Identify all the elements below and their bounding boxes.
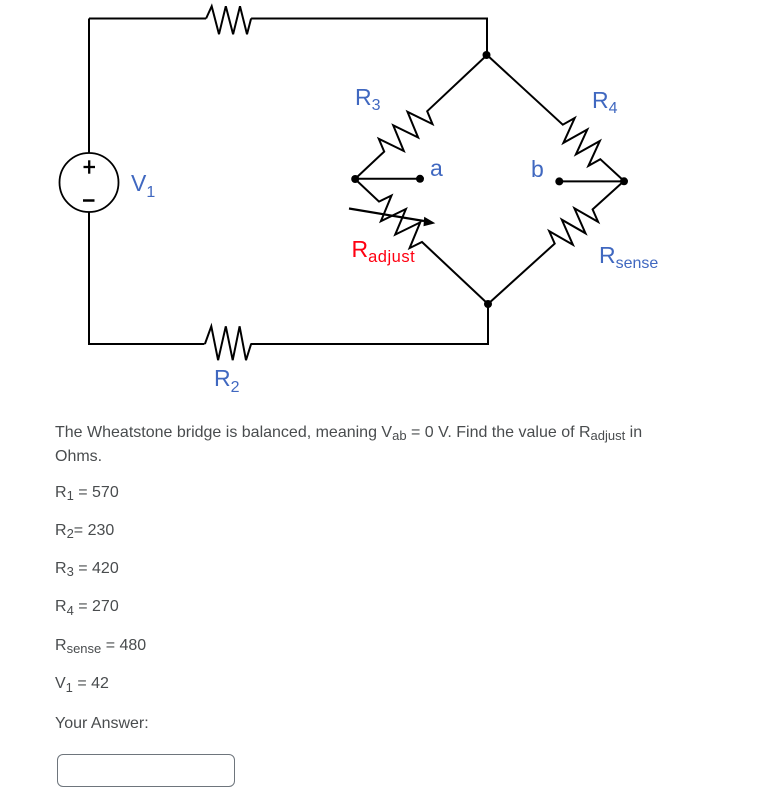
junction dot node b <box>555 177 563 185</box>
label R4 <box>592 89 618 112</box>
value V1 <box>55 672 109 696</box>
label R3 <box>355 86 381 109</box>
label node b <box>531 158 544 181</box>
resistor R4 (bridge branch: top node to right node) <box>487 55 624 181</box>
label V1 <box>131 172 155 195</box>
label Radjust <box>352 238 416 261</box>
voltage source V1 <box>60 153 119 212</box>
resistor Rsense (bridge branch: bottom node to right node) <box>488 181 624 304</box>
resistor R1 <box>206 6 251 34</box>
label node a <box>430 157 443 180</box>
resistor R2 <box>205 326 251 360</box>
value R2 <box>55 519 114 543</box>
junction dot left node <box>351 175 359 183</box>
question text <box>55 421 642 469</box>
wire top-left horizontal from source top corner <box>89 18 206 20</box>
junction dot top node <box>483 51 491 59</box>
wire left vertical upper (source to top wire) <box>88 19 90 154</box>
value Rsense <box>55 634 146 658</box>
answer input box <box>57 754 235 787</box>
wire bottom-right horizontal to bridge bottom <box>251 304 489 344</box>
wire top-right horizontal to bridge top <box>251 19 487 56</box>
wire node b stub <box>559 180 624 182</box>
junction dot right node <box>620 177 628 185</box>
junction dot node a <box>416 175 424 183</box>
label Rsense <box>599 244 658 267</box>
resistor R3 (bridge branch: left node to top node) <box>355 55 487 179</box>
value R1 <box>55 481 119 505</box>
arrow through Radjust (variable resistor) <box>349 209 435 227</box>
value R4 <box>55 595 119 619</box>
junction dot bottom node <box>484 300 492 308</box>
wire left vertical lower (source to bottom wire) <box>89 212 205 344</box>
wire node a stub <box>355 178 420 180</box>
value R3 <box>55 557 119 581</box>
label R2 <box>214 367 240 390</box>
resistor Radjust (bridge branch: left node to bottom node) <box>355 179 488 304</box>
your answer label <box>55 712 149 736</box>
